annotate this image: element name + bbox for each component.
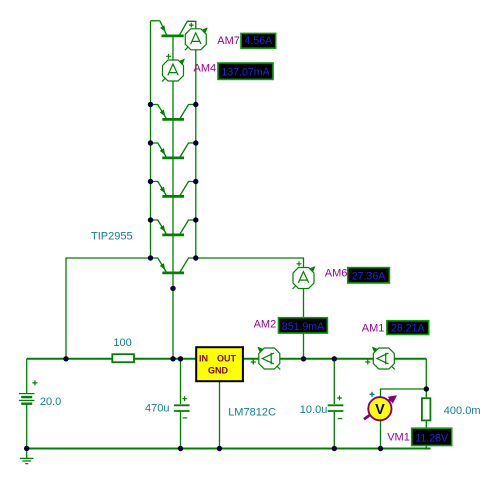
- svg-text:GND: GND: [208, 366, 229, 376]
- svg-text:AM6: AM6: [325, 268, 348, 280]
- svg-text:AM1: AM1: [362, 323, 385, 335]
- svg-text:100: 100: [113, 337, 131, 349]
- svg-text:TIP2955: TIP2955: [91, 231, 133, 243]
- svg-text:VM1: VM1: [387, 432, 410, 444]
- svg-text:28.21A: 28.21A: [391, 323, 426, 335]
- svg-text:LM7812C: LM7812C: [228, 407, 276, 419]
- svg-text:470u: 470u: [145, 402, 169, 414]
- svg-text:AM7: AM7: [217, 35, 240, 47]
- svg-text:4.56A: 4.56A: [245, 35, 274, 47]
- svg-text:400.0m: 400.0m: [444, 405, 481, 417]
- svg-text:11.28V: 11.28V: [415, 433, 449, 445]
- svg-text:AM2: AM2: [254, 318, 277, 330]
- svg-text:851.9mA: 851.9mA: [282, 321, 325, 333]
- svg-text:IN: IN: [199, 354, 208, 364]
- svg-text:V: V: [375, 402, 385, 418]
- svg-text:10.0u: 10.0u: [300, 404, 328, 416]
- svg-text:OUT: OUT: [217, 354, 237, 364]
- svg-text:AM4: AM4: [194, 62, 217, 74]
- svg-text:20.0: 20.0: [40, 396, 61, 408]
- svg-text:137.07mA: 137.07mA: [221, 67, 270, 79]
- svg-text:27.36A: 27.36A: [352, 271, 387, 283]
